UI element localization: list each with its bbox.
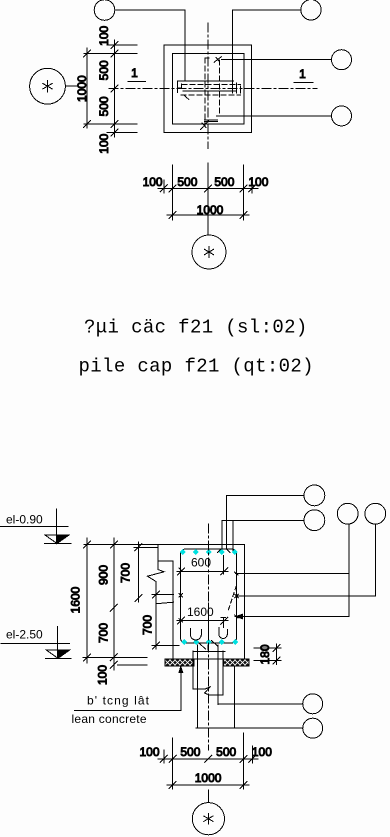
- cage edge mark left y=569.6: [179, 568, 183, 571]
- cage edge mark right y=616.5: [235, 615, 238, 618]
- elevation marker el-0.90 triangle fill: [57, 535, 69, 544]
- tick: [153, 591, 160, 598]
- bottom dimension stub x=163.8: [163, 750, 165, 763]
- center bar in cage: [207, 603, 209, 640]
- pile dowel right: [217, 645, 219, 705]
- bottom dimension extension x=172.5: [172, 165, 174, 220]
- tick: [240, 211, 247, 218]
- rebar plan: vertical bar bottom hook tick: [202, 123, 206, 128]
- svg-text:100: 100: [248, 175, 268, 189]
- tick: [169, 211, 176, 218]
- svg-text:700: 700: [141, 615, 155, 635]
- rebar bubble E: [303, 694, 323, 714]
- tick: [135, 544, 142, 551]
- tick: [240, 755, 247, 762]
- extension y=645.6: [152, 645, 179, 647]
- elevation marker el-2.50 triangle: [46, 650, 70, 659]
- centerline vertical (section): [208, 524, 210, 750]
- elevation marker el-0.90 base: [45, 543, 71, 545]
- rebar plan: dashed vertical bar right edge: [219, 60, 221, 116]
- callout line right y=573.5: [235, 573, 349, 575]
- elevation marker el-0.90 stem: [56, 509, 58, 544]
- dimension line 700 upper: [137, 542, 139, 602]
- extension y=648.1: [254, 647, 281, 649]
- svg-text:1600: 1600: [187, 605, 214, 619]
- svg-text:700: 700: [119, 563, 133, 583]
- tick: [205, 185, 212, 192]
- tick: [110, 604, 117, 611]
- rebar plan: right hook inner: [235, 83, 237, 93]
- tick: [135, 595, 142, 602]
- bottom dimension line row1: [158, 187, 258, 189]
- bottom dimension line row2 (1000): [167, 214, 249, 216]
- elevation marker el-2.50 triangle fill: [58, 650, 70, 659]
- svg-text:100: 100: [143, 175, 163, 189]
- wire: bubble B leader: [222, 520, 304, 522]
- extension y=664.9: [118, 664, 148, 666]
- svg-text:500: 500: [177, 175, 197, 189]
- tick: [84, 121, 91, 128]
- bottom hook diagonal 1: [200, 644, 206, 650]
- wire: bubble TR to column line: [233, 9, 301, 11]
- extension stub y=44.9: [107, 44, 137, 46]
- extension y=660.5: [254, 660, 281, 662]
- svg-text:1000: 1000: [197, 203, 224, 217]
- centerline horizontal (plan): [109, 88, 317, 90]
- rebar plan: vertical bar foot line 2: [205, 120, 218, 122]
- tick: [169, 755, 176, 762]
- rebar plan: vertical bar top hook tick: [216, 58, 220, 62]
- svg-text:500: 500: [97, 60, 111, 80]
- tick: [169, 782, 176, 789]
- wire: column line left, down into cap: [184, 10, 186, 81]
- cap step edge horizontal: [158, 560, 173, 562]
- tick: [111, 50, 118, 57]
- grid bubble top-left: [94, 0, 115, 20]
- pile top edge: [193, 650, 225, 652]
- extension y=594.6: [152, 594, 174, 596]
- svg-text:pile cap f21 (qt:02): pile cap f21 (qt:02): [79, 356, 314, 378]
- svg-text:100: 100: [96, 665, 110, 685]
- rebar bubble C: [337, 503, 358, 524]
- pile outline right: [222, 651, 224, 695]
- pile break right bottom: [210, 694, 223, 696]
- cage edge mark right y=573.5: [235, 572, 239, 575]
- svg-text:el-2.50: el-2.50: [6, 628, 43, 642]
- hook leg: [223, 556, 225, 574]
- tick: [205, 755, 212, 762]
- svg-text:lean concrete: lean concrete: [72, 712, 147, 726]
- elevation marker el-0.90 underline: [0, 526, 68, 528]
- svg-text:el-0.90: el-0.90: [6, 513, 43, 527]
- svg-text:b' tcng lât: b' tcng lât: [87, 694, 150, 708]
- rebar dots bottom row: [181, 639, 238, 645]
- bottom dimension stub x=252.3: [251, 746, 253, 763]
- dowel stub at cage bottom: [207, 645, 209, 650]
- cage edge mark left y=620.3: [179, 619, 183, 622]
- top hook tick right: [227, 549, 230, 552]
- tick: [240, 185, 247, 192]
- tick: [160, 755, 167, 762]
- svg-text:500: 500: [180, 745, 200, 759]
- bottom dimension extension x=172.7: [172, 738, 174, 789]
- cage dimension line lower: [177, 620, 228, 622]
- cap left break line upper: [157, 545, 159, 570]
- bottom hook U left: [190, 629, 201, 641]
- rebar bubble right 1: [332, 50, 352, 70]
- rebar plan: vertical bar bottom hook diagonal: [201, 121, 209, 130]
- pile cap inner square: [173, 54, 245, 124]
- svg-text:1: 1: [299, 67, 306, 81]
- svg-text:500: 500: [214, 175, 234, 189]
- tick: [178, 568, 185, 575]
- rebar bubble D: [365, 503, 386, 524]
- svg-text:100: 100: [97, 133, 111, 153]
- extension stub y=132.4: [107, 131, 137, 133]
- dimension line 900/700/100: [113, 538, 115, 670]
- lean concrete leader horizontal: [75, 710, 181, 712]
- pile outline left: [192, 651, 194, 689]
- svg-text:100: 100: [97, 25, 111, 45]
- rebar plan: dashed bottom bar bottom edge: [181, 94, 241, 96]
- svg-text:1000: 1000: [75, 75, 89, 102]
- tick: [84, 50, 91, 57]
- wire: datum leader left: [65, 85, 77, 87]
- datum circle bottom with asterisk: [192, 235, 226, 269]
- svg-text:500: 500: [97, 96, 111, 116]
- tick: [221, 617, 228, 624]
- wire: bubble F leader: [196, 727, 303, 729]
- tick: [110, 661, 117, 668]
- cap left break zigzag: [148, 570, 165, 586]
- cage dimension line 600: [177, 570, 228, 572]
- cap right edge: [244, 545, 246, 660]
- tick: [178, 617, 185, 624]
- rebar plan: vertical bar top hook diagonal: [214, 57, 221, 62]
- wire: bubble R2 leader: [220, 115, 332, 117]
- wire: bubble E leader: [218, 703, 303, 705]
- rebar plan: dashed vertical bar left edge: [204, 58, 206, 126]
- extension y=547.3: [134, 546, 158, 548]
- wire: bubble R1 leader: [222, 59, 332, 61]
- pile break zigzag: [205, 687, 211, 696]
- svg-text:180: 180: [258, 644, 272, 664]
- rebar dots top row: [180, 549, 238, 555]
- lean concrete strip right: [223, 659, 249, 666]
- svg-text:900: 900: [97, 565, 111, 585]
- rebar plan: left hook outer: [177, 81, 179, 92]
- svg-text:1600: 1600: [69, 586, 83, 613]
- svg-text:1000: 1000: [195, 771, 222, 785]
- wire: bubble A leader: [226, 494, 304, 496]
- pile dowel left: [196, 645, 198, 728]
- elevation marker el-2.50 stem: [56, 627, 58, 659]
- extension stub y=53.6: [84, 53, 137, 55]
- dowel hook top right: [221, 617, 226, 627]
- cage edge mark right y=596: [235, 594, 239, 598]
- wire: centerline to datum circle: [207, 790, 209, 803]
- rebar bubble F: [303, 718, 323, 738]
- rebar bubble right 2: [332, 106, 352, 126]
- rebar plan: solid horizontal bar bottom: [183, 90, 236, 92]
- bottom dimension stub x=163.8: [163, 180, 165, 193]
- asterisk glyph bottom: [204, 247, 213, 258]
- dimension 180 line: [276, 644, 278, 665]
- tick: [111, 121, 118, 128]
- cap step edge vertical: [172, 561, 174, 660]
- column bar 2: [221, 521, 223, 550]
- callout line right y=596: [237, 595, 376, 597]
- rebar bubble A: [304, 485, 325, 506]
- tick: [160, 185, 167, 192]
- cap top edge: [84, 544, 245, 546]
- asterisk glyph left: [43, 81, 53, 92]
- tick: [249, 755, 256, 762]
- centerline vertical (plan): [207, 23, 209, 149]
- svg-text:1: 1: [131, 66, 138, 80]
- rebar plan: left hook base: [178, 87, 182, 89]
- dimension line 1600: [86, 538, 88, 663]
- svg-text:500: 500: [216, 745, 236, 759]
- elevation marker el-2.50 base: [46, 657, 71, 659]
- bottom dimension extension x=243.5: [243, 165, 245, 220]
- wire: bubble TL to column line: [115, 9, 185, 11]
- bottom hook diagonal 2: [212, 641, 219, 647]
- rebar bubble B: [304, 510, 325, 531]
- top hook tick left: [218, 549, 221, 552]
- tick: [273, 645, 280, 652]
- extension stub y=124: [84, 123, 137, 125]
- datum circle section with asterisk: [192, 803, 224, 835]
- rebar plan: left hook diagonal: [184, 96, 188, 100]
- bottom dimension extension x=243.5: [243, 733, 245, 789]
- wire: vertical to bubble C: [348, 524, 350, 616]
- wire: lean strip to bubble F vertical: [233, 666, 235, 728]
- lean concrete leader vertical: [180, 668, 182, 711]
- column bar 1: [225, 495, 227, 549]
- rebar plan: vertical bar bottom edge dash: [217, 115, 221, 117]
- section mark 1 right underline: [294, 81, 313, 83]
- rebar plan: solid horizontal bar top: [178, 80, 234, 82]
- svg-text:100: 100: [139, 745, 159, 759]
- tick: [153, 642, 160, 649]
- tick: [249, 185, 256, 192]
- svg-text:100: 100: [252, 745, 272, 759]
- tick: [111, 129, 118, 136]
- tick: [110, 654, 117, 661]
- tick: [84, 654, 91, 661]
- rebar plan: vertical bar foot line 1: [205, 119, 218, 121]
- cap bottom edge: [165, 658, 249, 660]
- tick: [221, 568, 228, 575]
- callout line3 arrowhead: [236, 614, 243, 618]
- bent bar dashed diagonal: [228, 586, 237, 613]
- elevation marker el-2.50 underline: [1, 642, 69, 644]
- tick: [273, 657, 280, 664]
- grid bubble top-right: [301, 0, 321, 20]
- lean concrete leader arrow: [179, 667, 183, 673]
- rebar plan: vertical bar top edge dash: [205, 57, 212, 59]
- rebar plan: dashed bottom bar top edge: [182, 83, 241, 85]
- tick: [110, 541, 117, 548]
- asterisk glyph section: [204, 813, 213, 824]
- rebar plan: left hook inner: [180, 84, 182, 89]
- dimension line 100/500/500/100 (left): [114, 40, 116, 137]
- column bar 3: [232, 521, 234, 551]
- lean concrete strip left: [165, 659, 194, 666]
- wire: vertical to bubble D: [375, 524, 377, 596]
- svg-text:?μi cäc f21 (sl:02): ?μi cäc f21 (sl:02): [84, 317, 308, 339]
- tick: [84, 541, 91, 548]
- svg-text:700: 700: [97, 623, 111, 643]
- section mark 1 left underline: [128, 80, 146, 82]
- small diagonal near step: [156, 602, 173, 604]
- dimension line 1000 (left): [86, 48, 88, 128]
- tick: [111, 85, 118, 92]
- tick: [169, 185, 176, 192]
- wire: column line right, down into cap: [232, 10, 234, 93]
- bottom hook U right: [219, 628, 227, 639]
- callout line right y=616.5: [235, 616, 349, 618]
- wire: center line to datum circle bottom: [207, 163, 209, 235]
- pile break left bottom: [193, 688, 205, 690]
- dimension line 700 lower: [155, 585, 157, 649]
- extension y=657.4: [83, 656, 147, 658]
- rebar cage outline: [181, 549, 237, 643]
- pile cap outer square (excavation line): [164, 45, 252, 132]
- bottom dimension line row1: [158, 758, 258, 760]
- tick: [111, 41, 118, 48]
- bottom dimension line row2 (1000): [167, 784, 249, 786]
- datum circle left with asterisk: [30, 68, 66, 104]
- rebar plan: right hook outer: [240, 86, 242, 93]
- tick: [240, 782, 247, 789]
- bottom dimension stub x=252.2: [251, 180, 253, 193]
- cage edge mark left y=595.2: [179, 593, 183, 597]
- elevation marker el-0.90 triangle: [45, 535, 69, 544]
